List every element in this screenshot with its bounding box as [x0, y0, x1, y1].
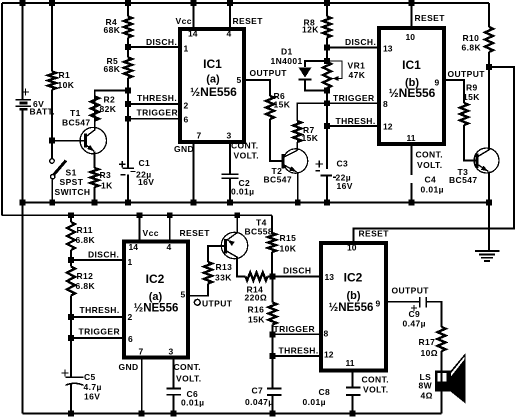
wire speaker to bottom rail [441, 392, 443, 414]
wire T4 collector to R14 [237, 257, 246, 277]
svg-text:0.47µ: 0.47µ [403, 319, 426, 329]
node battery top junction [20, 0, 26, 6]
wire speaker through-line [441, 371, 443, 392]
svg-text:TRIGGER: TRIGGER [79, 326, 121, 336]
svg-text:BC547: BC547 [62, 118, 90, 128]
wire R3 to rail1 [94, 187, 96, 203]
transistor T4 circle [221, 232, 247, 258]
svg-text:16V: 16V [138, 177, 154, 187]
node pin14 rail junction [191, 0, 197, 6]
wire R8 top lead [326, 3, 328, 17]
node VR1 top junction [324, 58, 330, 64]
svg-text:½NE556: ½NE556 [389, 86, 436, 100]
svg-text:16V: 16V [84, 392, 100, 402]
node R4 top junction [125, 0, 131, 6]
svg-text:0.01µ: 0.01µ [303, 397, 326, 407]
capacitor C5 plates [66, 376, 84, 378]
wire DISCH to pin13 (IC2b) [273, 276, 322, 278]
svg-text:Vcc: Vcc [143, 228, 159, 238]
node IC2b disch junction [270, 274, 276, 280]
pin 4 stub (IC2a RESET) [169, 215, 171, 239]
svg-text:OUTPUT: OUTPUT [392, 286, 430, 296]
transistor T2 emitter [283, 165, 297, 172]
wire trigger node to C5 [70, 338, 72, 377]
resistor R12 [67, 267, 75, 296]
svg-text:IC2: IC2 [146, 272, 165, 286]
resistor R3 [91, 168, 99, 187]
svg-text:6: 6 [128, 334, 133, 344]
node IC2b trigger junction [270, 332, 276, 338]
capacitor C7 [267, 388, 282, 390]
node R3-rail1 junction [92, 200, 98, 206]
wire disch to VR1 top [326, 48, 328, 63]
svg-text:33K: 33K [215, 273, 232, 283]
svg-text:VOLT.: VOLT. [234, 151, 259, 161]
wire thresh to trigger [127, 104, 129, 119]
wire TRIGGER to pin6 [128, 118, 178, 120]
wire pin5 output [246, 80, 270, 96]
svg-text:8: 8 [383, 99, 388, 109]
svg-text:CONT.: CONT. [362, 375, 390, 385]
svg-text:CONT.: CONT. [231, 141, 259, 151]
battery + sign [22, 91, 29, 93]
svg-text:82K: 82K [100, 104, 117, 114]
wire TRIGGER to pin6 (IC2a) [71, 337, 124, 339]
wire D1 anode [305, 61, 327, 67]
transistor T3 collector [477, 150, 489, 157]
svg-text:R11: R11 [77, 225, 93, 235]
svg-text:6.8K: 6.8K [462, 43, 482, 53]
node T1 base junction [49, 138, 55, 144]
svg-text:9: 9 [435, 78, 440, 88]
resistor R14 [246, 273, 268, 281]
pin 14 stub (IC2a Vcc) [139, 215, 141, 239]
wire R6 to T2 base [270, 119, 283, 161]
transistor T4 emitter (PNP) [227, 233, 238, 241]
capacitor C9 plates [419, 297, 421, 308]
svg-text:GND: GND [174, 144, 194, 154]
wire DISCH to pin13 [327, 47, 379, 49]
svg-text:Vcc: Vcc [176, 16, 192, 26]
svg-text:UTPUT: UTPUT [202, 299, 233, 309]
wire to thresh node [127, 91, 129, 105]
svg-text:7: 7 [197, 131, 202, 141]
transistor T1 emitter [86, 145, 95, 152]
svg-text:R12: R12 [77, 271, 94, 281]
svg-text:10K: 10K [280, 244, 297, 254]
wire DISCH to pin1 [128, 46, 178, 48]
wire C8 to rail [352, 395, 354, 414]
pin 4 stub (IC1a RESET) [229, 3, 231, 27]
svg-text:R1: R1 [59, 70, 71, 80]
svg-text:10: 10 [406, 32, 416, 42]
node C7-rail junction [270, 411, 276, 417]
svg-text:10Ω: 10Ω [421, 348, 438, 358]
svg-text:R15: R15 [280, 233, 297, 243]
wire disch to R12 [70, 260, 72, 267]
wire switch to rail1 [51, 179, 53, 203]
resistor R6 [266, 96, 274, 119]
svg-text:THRESH.: THRESH. [137, 93, 177, 103]
wire T3 emitter to rail1 [488, 172, 490, 203]
node IC2b thresh junction [270, 353, 276, 359]
wire R16 to trigger node [272, 325, 274, 335]
wire pin9 output (IC2b) [388, 301, 420, 303]
svg-text:R17: R17 [419, 337, 436, 347]
transistor T4 base bar [224, 239, 227, 253]
op-amp U4 IC2(b) body [321, 243, 386, 371]
wire T2 emitter to rail1 [297, 172, 299, 203]
pin 3 wire to C2 [229, 144, 231, 174]
node C2-rail1 junction [227, 200, 233, 206]
svg-text:SPST: SPST [60, 177, 84, 187]
svg-text:11: 11 [407, 133, 416, 143]
svg-text:DISCH.: DISCH. [146, 37, 177, 47]
wire battery/ground column [22, 110, 24, 414]
svg-text:4: 4 [227, 29, 232, 39]
wire thresh to trigger (IC2a) [70, 317, 72, 338]
node R11 top junction [68, 212, 74, 218]
pin 7 wire to rail (IC2a) [141, 360, 143, 414]
svg-text:220Ω: 220Ω [245, 293, 268, 303]
wire R17 to speaker [441, 351, 443, 371]
svg-text:R16: R16 [248, 305, 265, 315]
svg-text:15K: 15K [274, 100, 291, 110]
svg-text:15K: 15K [463, 92, 480, 102]
wire R13 to T4 base [208, 246, 226, 262]
wire R4 to disch node [127, 38, 129, 48]
svg-text:9: 9 [376, 299, 381, 309]
resistor R17 [438, 327, 446, 351]
capacitor C3 plus [316, 163, 323, 165]
wire left rail [1, 3, 3, 215]
node IC2a trigger junction [68, 335, 74, 341]
svg-text:THRESH.: THRESH. [80, 305, 120, 315]
transistor T3 emitter [477, 164, 488, 171]
node C5-rail junction [68, 411, 74, 417]
svg-text:12K: 12K [302, 25, 319, 35]
svg-text:GND: GND [119, 362, 139, 372]
wire R2 top lead [95, 91, 128, 97]
wire trigger node to C1 [127, 119, 129, 168]
svg-text:1N4001: 1N4001 [271, 56, 303, 66]
loudspeaker LS [435, 371, 451, 392]
svg-text:15K: 15K [302, 133, 319, 143]
resistor R11 [67, 222, 75, 250]
battery B1 plates [16, 99, 32, 101]
transistor T2 circle [283, 149, 307, 173]
transistor T4 collector [226, 251, 238, 258]
transistor T1 base bar [84, 134, 87, 148]
svg-text:IC1: IC1 [203, 57, 222, 71]
svg-text:68K: 68K [104, 25, 121, 35]
resistor R15 [268, 233, 276, 252]
wire R8 to disch node [326, 38, 328, 48]
svg-text:0.01µ: 0.01µ [421, 185, 444, 195]
wire base node to switch [51, 141, 53, 159]
pin 11 wire to C8 [352, 373, 354, 388]
wire R10 to junction [488, 52, 490, 67]
svg-text:6.8K: 6.8K [76, 281, 96, 291]
node IC2a Vcc junction [137, 212, 143, 218]
wire THRESH to pin2 [128, 103, 178, 105]
node IC1b trigger junction [324, 100, 330, 106]
svg-text:C7: C7 [252, 386, 264, 396]
wire R11 to disch node [70, 250, 72, 260]
node IC1a disch junction [125, 44, 131, 50]
capacitor C4 gap lower lead [411, 183, 413, 203]
wire D1 cathode [305, 80, 327, 91]
node D1/VR1 bottom junction [324, 88, 330, 94]
wire R14 to junction [268, 276, 273, 278]
wire R7 top to trigger node [297, 103, 327, 121]
svg-text:C8: C8 [319, 387, 331, 397]
svg-text:4: 4 [167, 242, 172, 252]
svg-text:11: 11 [346, 358, 355, 368]
node pin4 rail junction [227, 0, 233, 6]
wire THRESH to pin12 (IC2b) [273, 355, 322, 357]
op-amp U1 IC1(a) body [180, 29, 244, 142]
svg-text:16V: 16V [337, 181, 353, 191]
op-amp U2 IC1(b) body [379, 28, 444, 144]
wire THRESH to pin12 [327, 125, 379, 127]
potentiometer VR1 [323, 62, 331, 88]
svg-text:R9: R9 [466, 83, 478, 93]
svg-text:½NE556: ½NE556 [190, 85, 237, 99]
svg-text:1K: 1K [101, 181, 113, 191]
node IC1b disch junction [324, 45, 330, 51]
node C8-rail junction [350, 411, 356, 417]
svg-text:C4: C4 [425, 175, 437, 185]
svg-text:13: 13 [383, 44, 393, 54]
wire rail to R10 [488, 3, 490, 27]
svg-text:0.047µ: 0.047µ [245, 397, 274, 407]
wire ground column [488, 203, 490, 251]
pin 10 stub (IC1b RESET) [411, 3, 413, 28]
resistor R5 [124, 58, 132, 79]
svg-text:DISCH.: DISCH. [345, 37, 376, 47]
svg-text:10K: 10K [58, 80, 75, 90]
switch S1 terminal 1 [50, 159, 54, 163]
svg-text:0.01µ: 0.01µ [231, 187, 254, 197]
pin 11 wire upper [411, 146, 413, 175]
wire disch to R5 [127, 47, 129, 58]
svg-text:S1: S1 [66, 168, 77, 178]
svg-text:12: 12 [324, 350, 334, 360]
node switch-rail1 junction [49, 200, 55, 206]
capacitor C5 plus [62, 372, 69, 374]
svg-text:47K: 47K [349, 70, 366, 80]
node C6-rail junction [171, 411, 177, 417]
wire C2 to rail1 [229, 178, 231, 202]
battery B1 + lead [22, 3, 24, 100]
wire disch to R16 [272, 277, 274, 303]
svg-text:3: 3 [169, 347, 174, 357]
svg-text:(a): (a) [149, 291, 163, 303]
capacitor C1 plus [119, 163, 125, 165]
resistor R10 [485, 27, 493, 52]
wiper VR1 [327, 61, 342, 79]
wire bottom ground rail [23, 413, 442, 415]
svg-text:13: 13 [325, 272, 335, 282]
wire THRESH to pin2 (IC2a) [71, 316, 124, 318]
node T4 emitter junction [234, 212, 240, 218]
svg-text:SWITCH: SWITCH [55, 187, 91, 197]
svg-text:RESET: RESET [415, 13, 446, 23]
capacitor C1 plates [123, 167, 135, 169]
resistor R1 [48, 72, 56, 90]
svg-text:OUTPUT: OUTPUT [448, 69, 486, 79]
svg-text:VOLT.: VOLT. [176, 374, 201, 384]
wire R5 to R2 node [127, 78, 129, 91]
wire pin5 output (IC2a) [188, 284, 208, 296]
wire Vcc rail corner to R15 [271, 215, 273, 233]
svg-text:68K: 68K [104, 64, 121, 74]
svg-text:VR1: VR1 [348, 61, 366, 71]
wire R12 to thresh node [70, 296, 72, 318]
resistor R7 [293, 121, 301, 142]
node C1-rail1 junction [125, 200, 131, 206]
svg-text:THRESH.: THRESH. [279, 346, 319, 356]
node C4-rail1 junction [409, 200, 415, 206]
svg-text:5: 5 [237, 75, 242, 85]
svg-text:D1: D1 [281, 47, 293, 57]
wire R11 top lead [70, 215, 72, 222]
svg-text:6: 6 [184, 115, 189, 125]
pin 14 stub (IC1a Vcc) [193, 3, 195, 27]
wire R15 to disch node [271, 252, 273, 277]
wire C7 to rail [272, 395, 274, 414]
transistor T3 circle [474, 148, 499, 173]
svg-text:TRIGGER: TRIGGER [137, 107, 179, 117]
resistor R4 [124, 17, 132, 38]
wire T2 collector to R7 [296, 142, 298, 150]
svg-text:½NE556: ½NE556 [134, 303, 179, 315]
svg-text:IC2: IC2 [344, 271, 363, 285]
pin 3 wire to C6 [173, 360, 175, 389]
svg-text:(a): (a) [206, 74, 220, 86]
wire T1 emitter to R3 [94, 152, 96, 169]
svg-text:BC558: BC558 [245, 227, 273, 237]
svg-text:3: 3 [227, 131, 232, 141]
node T2-rail1 junction [295, 200, 301, 206]
svg-text:2: 2 [184, 101, 189, 111]
svg-text:TRIGGER: TRIGGER [274, 324, 316, 334]
svg-text:BC547: BC547 [449, 175, 477, 185]
wire TRIGGER to pin8 (IC2b) [273, 333, 322, 335]
svg-text:C1: C1 [139, 158, 151, 168]
node IC2a RESET junction [167, 212, 173, 218]
node IC1b thresh junction [324, 123, 330, 129]
svg-text:15K: 15K [248, 315, 265, 325]
svg-text:VOLT.: VOLT. [417, 160, 442, 170]
capacitor C8 [346, 387, 361, 389]
svg-text:C5: C5 [84, 372, 96, 382]
diode D1 [299, 68, 312, 78]
node R10/T3 junction [486, 64, 492, 70]
svg-text:7: 7 [139, 347, 144, 357]
node T3-rail1 junction [486, 200, 492, 206]
svg-text:C9: C9 [409, 309, 421, 319]
svg-text:BC547: BC547 [264, 175, 292, 185]
svg-text:1: 1 [128, 257, 133, 267]
svg-text:0.01µ: 0.01µ [181, 398, 204, 408]
svg-text:RESET: RESET [359, 229, 390, 239]
svg-text:CONT.: CONT. [174, 362, 202, 372]
svg-text:12: 12 [383, 122, 393, 132]
wire C1 to rail1 [127, 175, 129, 203]
resistor R9 [460, 103, 468, 125]
svg-text:R10: R10 [463, 33, 480, 43]
wire T1 collector to R2 [94, 97, 96, 130]
svg-text:6.8K: 6.8K [76, 235, 96, 245]
wire Vcc rail (bottom section) [2, 214, 272, 216]
node pin7-rail junction (IC2a) [139, 411, 145, 417]
svg-text:2: 2 [128, 312, 133, 322]
wire DISCH to pin1 (IC2a) [71, 259, 124, 261]
node IC1a thresh junction [125, 101, 131, 107]
svg-text:½NE556: ½NE556 [329, 302, 374, 314]
svg-text:14: 14 [188, 29, 198, 39]
svg-text:OUTPUT: OUTPUT [250, 68, 288, 78]
wire +6V top rail [2, 2, 489, 4]
wire ground rail (top section) [23, 202, 490, 204]
wire pin9 output [446, 80, 464, 103]
switch S1 terminal 2 [51, 175, 55, 179]
wire R1 to base node [51, 90, 53, 141]
node IC2a thresh junction [68, 314, 74, 320]
node pin10 rail junction [409, 0, 415, 6]
capacitor C2 [222, 173, 239, 175]
wire to IC1b trigger node [326, 88, 328, 103]
svg-text:10: 10 [347, 243, 357, 253]
ground symbol [475, 250, 500, 252]
wire trigger to thresh (IC2b) [272, 334, 274, 356]
wire T1 base wire [52, 140, 86, 142]
svg-text:THRESH.: THRESH. [336, 116, 376, 126]
svg-text:4Ω: 4Ω [421, 391, 433, 401]
svg-text:VOLT.: VOLT. [363, 385, 388, 395]
resistor R16 [269, 303, 277, 325]
wire C3 to rail1 [326, 176, 328, 203]
label OUTPUT (IC2a) [194, 299, 200, 305]
op-amp U3 IC2(a) body [124, 242, 188, 358]
wire thresh node to C3 [326, 126, 328, 169]
svg-text:14: 14 [129, 242, 139, 252]
wire C9 to R17 [426, 302, 441, 327]
svg-text:DISCH.: DISCH. [88, 250, 119, 260]
wire R4 top lead [127, 3, 129, 17]
wire to right rail [354, 67, 515, 243]
svg-text:IC1: IC1 [402, 58, 421, 72]
node R8 top junction [324, 0, 330, 6]
svg-text:1: 1 [184, 44, 189, 54]
resistor R8 [323, 17, 331, 38]
capacitor C9 plus [411, 307, 417, 309]
node IC2a disch junction [68, 257, 74, 263]
transistor T2 collector [283, 150, 297, 157]
node C3-rail1 junction [324, 200, 330, 206]
node battery-rail1 junction [20, 200, 26, 206]
svg-text:DISCH: DISCH [283, 266, 311, 276]
node R1 top junction [49, 0, 55, 6]
resistor R2 [91, 97, 99, 121]
transistor T1 collector [86, 130, 96, 137]
transistor T3 base bar [476, 154, 479, 168]
svg-text:5: 5 [181, 290, 186, 300]
wire thresh node to C7 [272, 356, 274, 389]
resistor R13 [204, 262, 212, 284]
